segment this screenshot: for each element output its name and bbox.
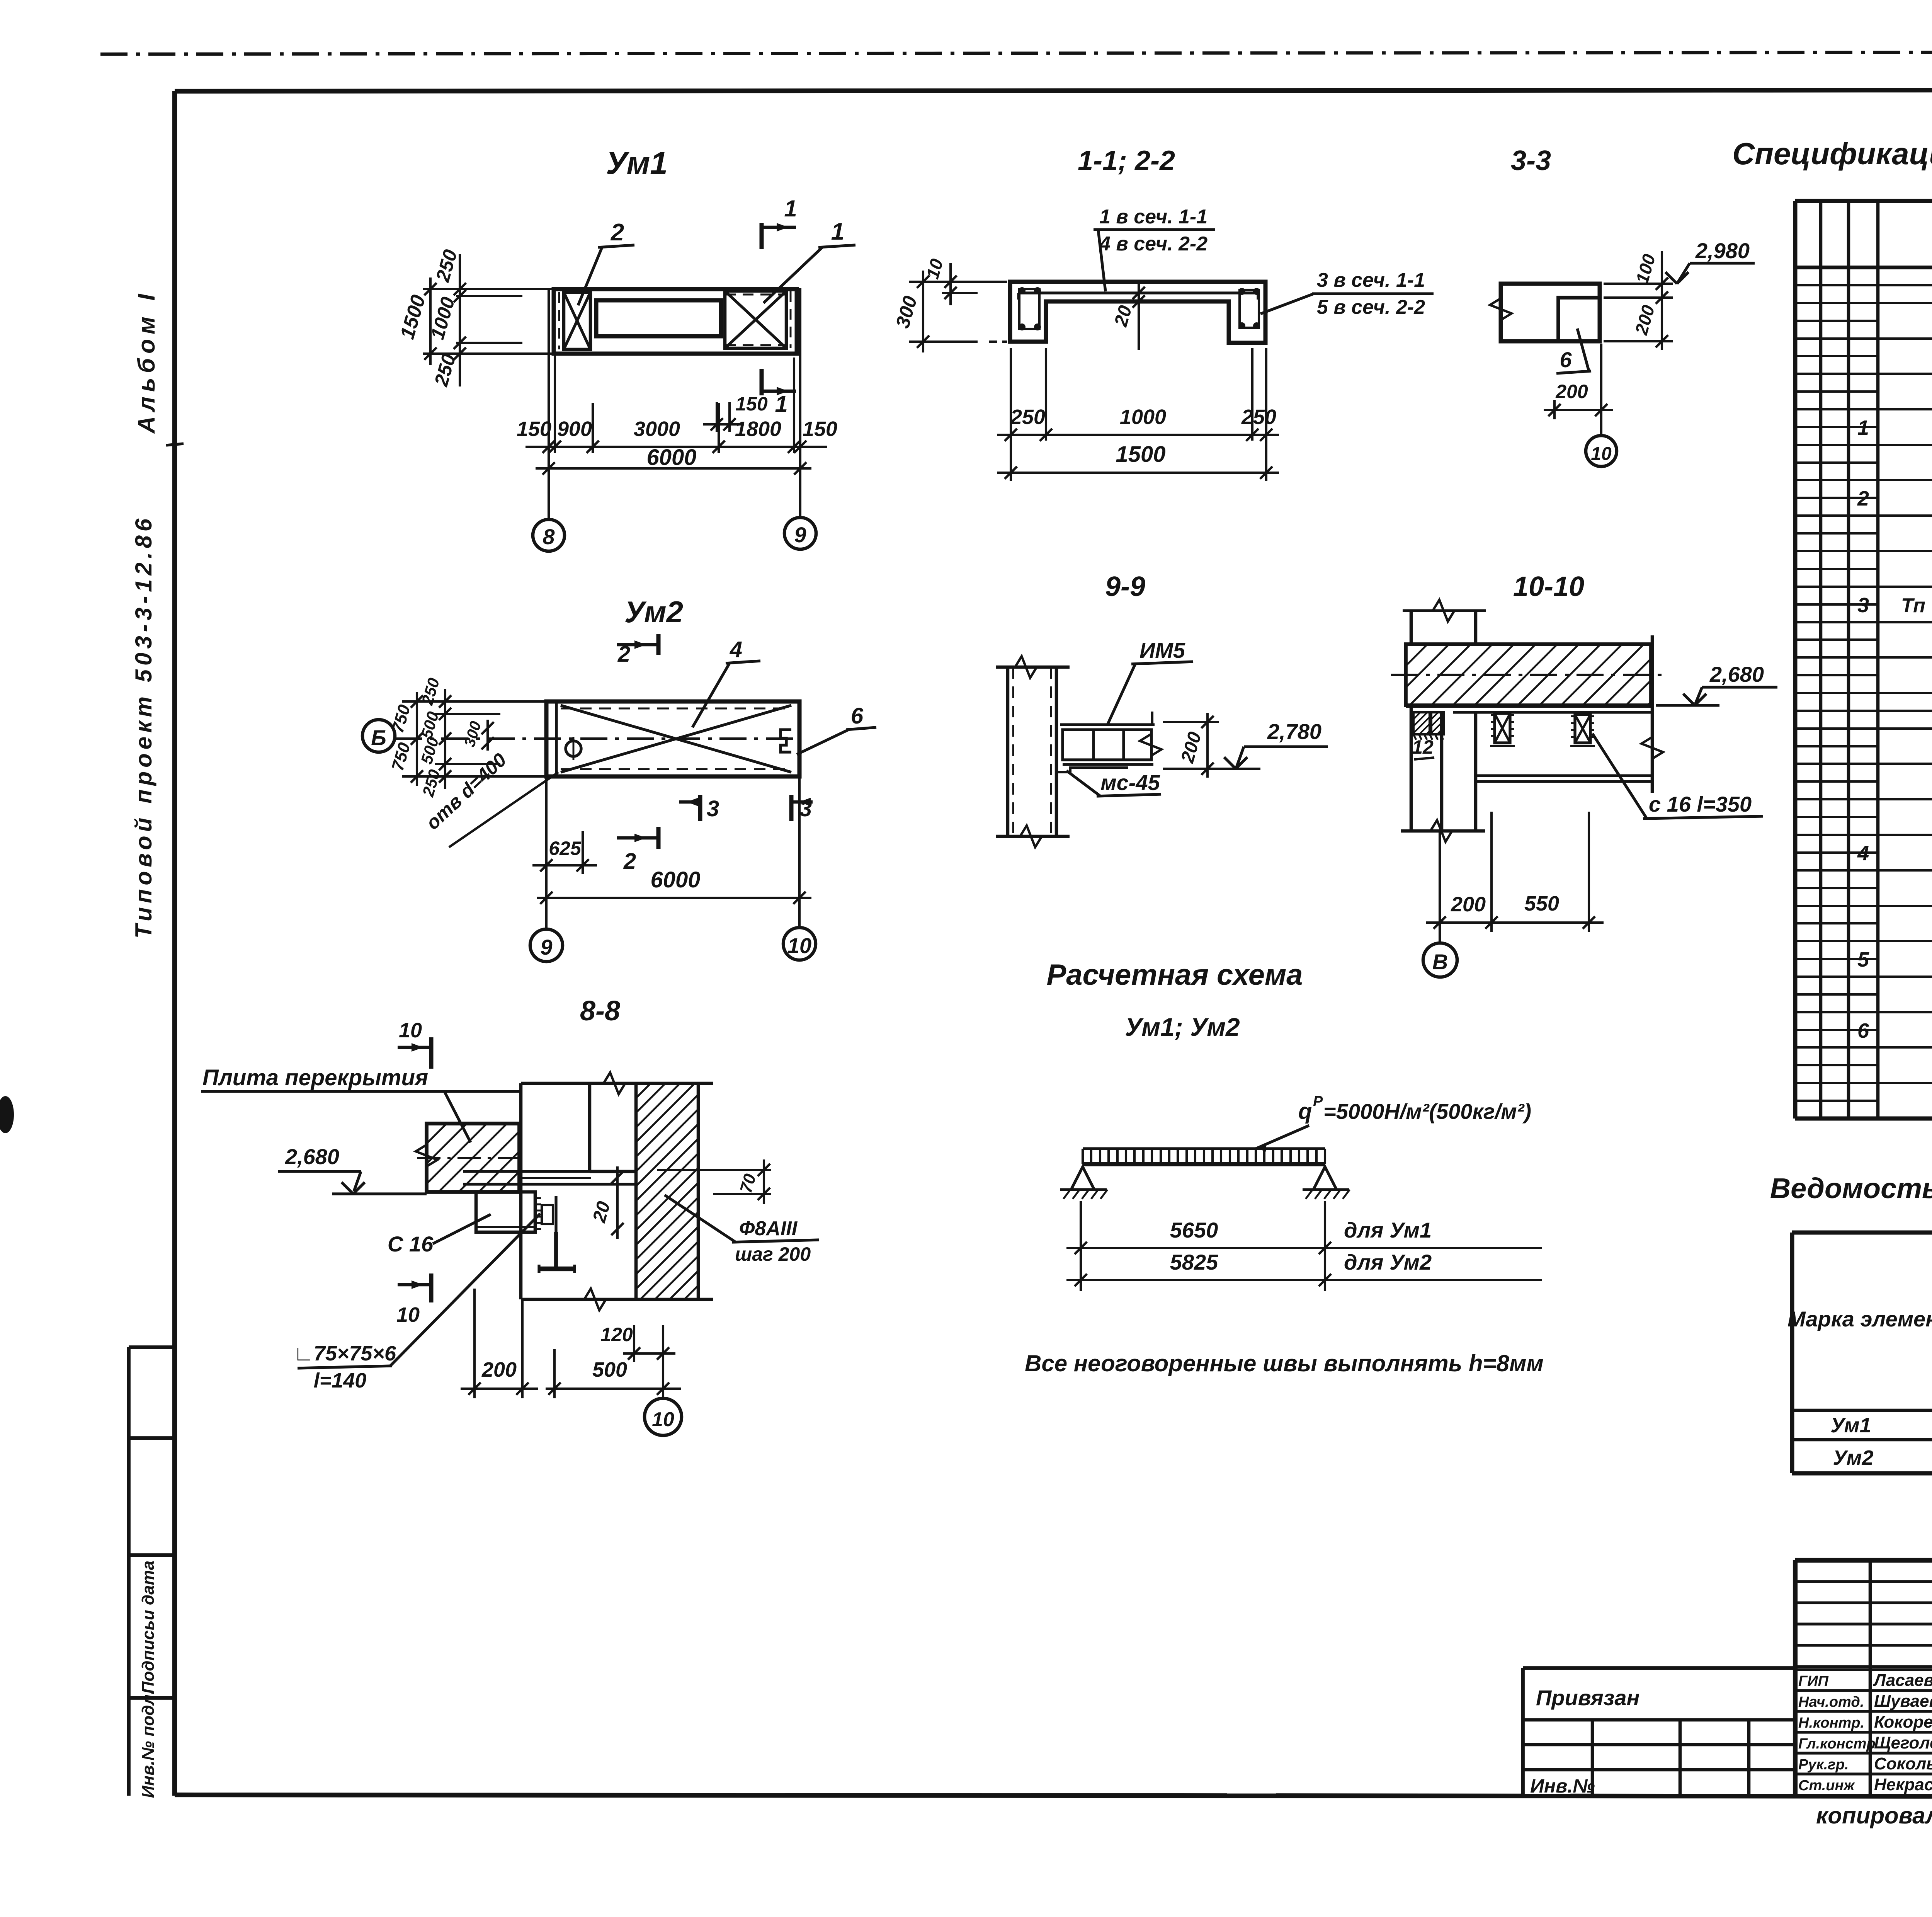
svg-text:q: q bbox=[1298, 1099, 1312, 1124]
svg-text:1: 1 bbox=[784, 196, 797, 221]
svg-text:10: 10 bbox=[399, 1019, 422, 1042]
dimension 20 mesh offset bbox=[1138, 283, 1140, 350]
svg-text:Подписьи дата: Подписьи дата bbox=[139, 1561, 158, 1694]
wall edge right 10-10 bbox=[1651, 635, 1654, 793]
extension lines left of Um1 bbox=[423, 288, 556, 290]
section mark 2 top bbox=[617, 643, 658, 647]
spec table half rows in narrow columns bbox=[1795, 284, 1878, 286]
svg-text:6: 6 bbox=[851, 703, 864, 729]
dimension 5825 dlya Um2 bbox=[1066, 1279, 1542, 1281]
svg-text:Ум2: Ум2 bbox=[624, 595, 683, 629]
column hidden dash lines bbox=[1012, 667, 1014, 836]
dimension 10 vertical bbox=[949, 263, 952, 305]
dimension 6000 Um1 bbox=[536, 467, 811, 470]
svg-text:Ласаев: Ласаев bbox=[1873, 1671, 1932, 1690]
svg-text:С 16: С 16 bbox=[388, 1232, 434, 1256]
svg-text:=5000Н/м²(500кг/м²): =5000Н/м²(500кг/м²) bbox=[1323, 1099, 1531, 1124]
svg-text:1: 1 bbox=[831, 218, 844, 245]
dimension 5650 dlya Um1 bbox=[1066, 1247, 1542, 1249]
drawing frame bbox=[175, 90, 1932, 91]
column face 8-8 bbox=[519, 1083, 523, 1299]
section marks 3-3 bbox=[698, 795, 702, 821]
slab soffit lines bbox=[1406, 705, 1651, 708]
svg-text:Ум1: Ум1 bbox=[1830, 1414, 1871, 1437]
right end embed notch bbox=[781, 730, 791, 752]
left stirrup cage bbox=[1019, 289, 1039, 329]
plan Um2 outline bbox=[546, 701, 799, 776]
svg-text:12: 12 bbox=[1412, 736, 1434, 758]
extension lines left of Um2 bbox=[402, 700, 546, 703]
svg-text:200: 200 bbox=[1555, 381, 1588, 402]
section mark 10 top bbox=[398, 1046, 431, 1049]
svg-text:9-9: 9-9 bbox=[1105, 571, 1145, 602]
svg-text:2,780: 2,780 bbox=[1267, 719, 1321, 744]
svg-text:6: 6 bbox=[1857, 1019, 1869, 1042]
plan Um1 hidden dash lines bbox=[558, 292, 560, 349]
svg-text:2: 2 bbox=[623, 849, 636, 874]
axis line 9 bbox=[799, 288, 801, 518]
plan Um1 left mesh box with cross bbox=[564, 292, 590, 349]
axis line and circle 10 bbox=[1600, 344, 1602, 436]
svg-text:150: 150 bbox=[517, 417, 551, 441]
svg-text:9: 9 bbox=[540, 935, 552, 959]
dimension 6000 Um2 bbox=[798, 776, 801, 928]
embedded plate 12 with hatch bbox=[1413, 712, 1430, 734]
svg-text:Ум1; Ум2: Ум1; Ум2 bbox=[1125, 1013, 1240, 1041]
extension lines below Um1 bbox=[554, 356, 556, 453]
svg-text:1: 1 bbox=[1857, 416, 1869, 439]
svg-text:8-8: 8-8 bbox=[580, 996, 620, 1027]
right stirrup cage bbox=[1240, 290, 1259, 328]
svg-text:3 в сеч. 1-1: 3 в сеч. 1-1 bbox=[1317, 269, 1425, 291]
svg-text:копировал: копировал bbox=[1816, 1803, 1932, 1828]
svg-text:шаг 200: шаг 200 bbox=[735, 1243, 811, 1265]
svg-text:9: 9 bbox=[794, 523, 806, 547]
svg-text:Шуваев: Шуваев bbox=[1874, 1692, 1932, 1711]
left support pinned bbox=[1071, 1167, 1094, 1190]
svg-text:2: 2 bbox=[611, 219, 624, 246]
svg-text:1500: 1500 bbox=[1116, 442, 1165, 467]
axis circle 8 bbox=[533, 519, 565, 551]
svg-text:для Ум1: для Ум1 bbox=[1344, 1218, 1432, 1242]
column below slab bbox=[1410, 705, 1413, 831]
svg-text:1-1; 2-2: 1-1; 2-2 bbox=[1078, 145, 1175, 176]
break mark on left edge bbox=[1490, 298, 1512, 320]
support plate lines 8-8 bbox=[463, 1170, 636, 1173]
svg-text:5: 5 bbox=[1857, 948, 1869, 971]
svg-text:10: 10 bbox=[652, 1408, 674, 1431]
svg-text:625: 625 bbox=[549, 838, 582, 859]
axis circle 9 bbox=[784, 518, 816, 549]
svg-text:5 в сеч. 2-2: 5 в сеч. 2-2 bbox=[1317, 296, 1425, 318]
beam IM5 body bbox=[1060, 723, 1155, 726]
plan Um1 right mesh box with cross bbox=[725, 291, 786, 348]
svg-text:Инв.№ подл.: Инв.№ подл. bbox=[139, 1690, 158, 1798]
anchor stirrup right bbox=[1575, 715, 1590, 743]
svg-text:Альбом I: Альбом I bbox=[133, 289, 160, 434]
dimension 200 500 below 8-8 bbox=[461, 1388, 538, 1390]
svg-text:P: P bbox=[1313, 1093, 1323, 1110]
margin stamp boxes bbox=[127, 1347, 131, 1796]
extension lines left of section bbox=[909, 281, 1007, 283]
small dimension 150 at opening bbox=[716, 402, 718, 432]
section 3-3 inner beam bbox=[1558, 298, 1600, 341]
title block left columns bbox=[1869, 1560, 1872, 1796]
svg-text:550: 550 bbox=[1524, 892, 1559, 915]
svg-text:250: 250 bbox=[1010, 405, 1045, 429]
svg-text:Типовой проект 503-3-12.86: Типовой проект 503-3-12.86 bbox=[131, 515, 156, 938]
welded rebar zone bbox=[554, 1196, 557, 1232]
axis circle V bbox=[1423, 943, 1457, 977]
leader 2 to left mesh bbox=[598, 245, 634, 247]
svg-text:500: 500 bbox=[592, 1358, 627, 1381]
svg-text:3: 3 bbox=[707, 796, 719, 821]
shelf angle 8-8 bbox=[476, 1192, 535, 1232]
svg-text:10: 10 bbox=[1591, 444, 1612, 464]
leader 1 to right mesh bbox=[818, 245, 855, 247]
extension lines below 10-10 bbox=[1490, 812, 1493, 932]
column outline 9-9 bbox=[1006, 667, 1010, 836]
spec table blank row subdivision lines bbox=[1795, 284, 1932, 286]
title block thin rows bbox=[1795, 1580, 1932, 1583]
svg-text:6: 6 bbox=[1560, 347, 1572, 372]
svg-text:ГИП: ГИП bbox=[1798, 1673, 1829, 1689]
extension lines below section bbox=[1010, 348, 1012, 481]
axis dash-dot through Um2 bbox=[395, 737, 799, 740]
svg-text:2: 2 bbox=[617, 642, 630, 667]
dimension 625 bbox=[545, 776, 548, 929]
svg-text:В: В bbox=[1432, 950, 1448, 974]
vedomost outer frame bbox=[1792, 1231, 1932, 1235]
break marks on column bbox=[1015, 656, 1037, 678]
svg-text:8: 8 bbox=[543, 524, 555, 549]
axis circle 10 Um2 bbox=[783, 928, 816, 960]
svg-text:3000: 3000 bbox=[634, 417, 680, 441]
svg-text:Кокорев: Кокорев bbox=[1874, 1713, 1932, 1731]
svg-text:4: 4 bbox=[730, 637, 742, 662]
mc-45 support step bbox=[1056, 768, 1128, 772]
dimension 200 550 bbox=[1426, 921, 1604, 924]
spec table outer and columns bbox=[1793, 201, 1798, 1119]
svg-text:200: 200 bbox=[1451, 893, 1486, 916]
svg-text:3: 3 bbox=[1857, 594, 1869, 617]
spec table row lines bbox=[1795, 302, 1932, 304]
plan Um2 left partition bbox=[555, 701, 558, 776]
axis line 8 bbox=[548, 288, 550, 519]
svg-text:ИМ5: ИМ5 bbox=[1139, 638, 1185, 662]
dimension 120 bbox=[633, 1325, 635, 1362]
svg-text:Расчетная схема: Расчетная схема bbox=[1047, 958, 1303, 991]
title block name rows bbox=[1795, 1668, 1932, 1671]
sheet top dash-dot trim line bbox=[100, 52, 1932, 54]
svg-text:с 16 l=350: с 16 l=350 bbox=[1649, 792, 1752, 816]
svg-text:мс-45: мс-45 bbox=[1100, 770, 1160, 795]
mesh line in slab bbox=[1019, 291, 1258, 294]
slab 10-10 hatched bbox=[1406, 644, 1651, 705]
svg-text:2,680: 2,680 bbox=[1709, 662, 1764, 686]
svg-text:Нач.отд.: Нач.отд. bbox=[1798, 1694, 1864, 1710]
scan blob bbox=[0, 1096, 14, 1133]
svg-text:∟75×75×6: ∟75×75×6 bbox=[293, 1342, 396, 1365]
dimension 750 750 vertical bbox=[416, 692, 418, 786]
dimension 200 right of beam bbox=[1163, 721, 1219, 723]
steel I-beam symbol bbox=[554, 1232, 558, 1269]
axis circle 9 Um2 bbox=[530, 929, 563, 962]
plan Um1 outer slab outline bbox=[554, 289, 797, 354]
beam bottom lines 10-10 bbox=[1476, 774, 1652, 777]
dimension 1500 section bbox=[997, 472, 1279, 474]
svg-text:3-3: 3-3 bbox=[1511, 145, 1551, 176]
svg-text:4: 4 bbox=[1857, 842, 1869, 865]
dimension 100 200 vertical bbox=[1661, 251, 1663, 350]
svg-text:Ум2: Ум2 bbox=[1833, 1446, 1873, 1469]
svg-text:Б: Б bbox=[371, 725, 386, 750]
dimension 200 below 3-3 bbox=[1553, 400, 1556, 419]
svg-text:2,680: 2,680 bbox=[285, 1144, 339, 1169]
svg-text:10: 10 bbox=[396, 1303, 420, 1326]
svg-text:Некрасова: Некрасова bbox=[1874, 1775, 1932, 1794]
svg-text:1000: 1000 bbox=[1120, 405, 1166, 429]
section 3-3 body bbox=[1501, 284, 1600, 341]
svg-text:Рук.гр.: Рук.гр. bbox=[1798, 1757, 1849, 1773]
svg-text:250: 250 bbox=[1241, 405, 1276, 429]
svg-text:6000: 6000 bbox=[650, 867, 700, 892]
dimension 300 vertical bbox=[922, 271, 924, 352]
floor slab hatched 8-8 bbox=[427, 1124, 519, 1192]
svg-text:Ведомость расхода стали на эл: Ведомость расхода стали на элемент кг bbox=[1770, 1172, 1932, 1204]
svg-text:Н.контр.: Н.контр. bbox=[1798, 1715, 1864, 1731]
beam line bbox=[1083, 1162, 1325, 1166]
svg-text:150: 150 bbox=[803, 417, 837, 441]
dimension 250 1000 250 vertical bbox=[459, 254, 461, 386]
svg-text:Ф8АIII: Ф8АIII bbox=[739, 1217, 798, 1240]
section mark 2 bottom bbox=[617, 836, 658, 840]
wall masonry 8-8 bbox=[634, 1083, 638, 1299]
svg-text:10: 10 bbox=[787, 933, 811, 958]
distributed load strip bbox=[1083, 1147, 1325, 1150]
svg-text:1: 1 bbox=[775, 391, 787, 417]
dimension 250 500 500 250 vertical bbox=[444, 689, 446, 789]
plan Um1 opening bbox=[596, 300, 721, 336]
svg-text:900: 900 bbox=[557, 417, 592, 441]
svg-text:150: 150 bbox=[735, 393, 768, 415]
spec table header row line bbox=[1795, 266, 1932, 269]
slab axis dash-dot bbox=[1391, 674, 1662, 676]
dimension 20 8-8 bbox=[616, 1166, 619, 1239]
svg-text:6000: 6000 bbox=[646, 445, 696, 470]
svg-text:Щеголев: Щеголев bbox=[1874, 1733, 1932, 1752]
svg-text:10-10: 10-10 bbox=[1513, 571, 1584, 602]
channel section outline bbox=[1010, 282, 1265, 343]
section mark 10 bottom bbox=[398, 1283, 431, 1287]
svg-text:200: 200 bbox=[481, 1358, 517, 1381]
anchor stirrup left bbox=[1495, 713, 1510, 743]
dimension 70 bbox=[657, 1169, 771, 1171]
svg-text:Инв.№: Инв.№ bbox=[1530, 1775, 1595, 1797]
svg-text:1 в сеч. 1-1: 1 в сеч. 1-1 bbox=[1099, 206, 1207, 228]
wall stub above slab bbox=[1410, 609, 1413, 644]
dimension 1500 vertical bbox=[429, 278, 432, 365]
section mark 1-1 bottom bbox=[760, 369, 764, 395]
svg-text:Гл.констр: Гл.констр bbox=[1798, 1736, 1876, 1752]
svg-text:5650: 5650 bbox=[1170, 1218, 1218, 1242]
svg-text:2: 2 bbox=[1857, 487, 1869, 510]
margin tick bbox=[166, 444, 184, 445]
privyazan table bbox=[1523, 1666, 1795, 1670]
svg-text:3: 3 bbox=[799, 796, 812, 821]
beam break mark bbox=[1140, 734, 1162, 756]
svg-text:Сокольцов: Сокольцов bbox=[1874, 1754, 1932, 1773]
svg-text:Ум1: Ум1 bbox=[606, 146, 668, 181]
svg-text:для Ум2: для Ум2 bbox=[1344, 1250, 1432, 1274]
dimension 250 1000 250 bbox=[997, 434, 1279, 436]
svg-text:5825: 5825 bbox=[1170, 1250, 1218, 1274]
axis circle B bbox=[362, 720, 395, 752]
svg-text:120: 120 bbox=[600, 1324, 633, 1345]
svg-text:Плита перекрытия: Плита перекрытия bbox=[202, 1065, 428, 1090]
hole otv d400 bbox=[566, 741, 581, 756]
section mark 1-1 top bbox=[760, 223, 764, 249]
svg-text:Тп: Тп bbox=[1901, 594, 1925, 617]
svg-text:2,980: 2,980 bbox=[1695, 238, 1750, 263]
plan Um2 dashed edges bbox=[561, 708, 791, 710]
svg-text:Все неоговоренные швы выпол: Все неоговоренные швы выполнять h=8мм bbox=[1025, 1350, 1544, 1376]
extension lines right of 3-3 bbox=[1604, 283, 1673, 285]
dimension 300 small bbox=[486, 720, 489, 751]
svg-text:Привязан: Привязан bbox=[1536, 1685, 1639, 1710]
svg-text:1800: 1800 bbox=[735, 417, 781, 441]
axis circle 10 8-8 bbox=[662, 1362, 664, 1398]
plan Um2 big cross bbox=[561, 705, 791, 772]
title block outer bbox=[1795, 1558, 1932, 1563]
svg-text:Марка элемента: Марка элемента bbox=[1787, 1307, 1932, 1331]
right support bbox=[1313, 1167, 1337, 1190]
dimension chain 150 900 3000 1800 150 bbox=[526, 446, 827, 448]
svg-text:4 в сеч. 2-2: 4 в сеч. 2-2 bbox=[1099, 233, 1207, 255]
svg-text:l=140: l=140 bbox=[314, 1369, 367, 1392]
svg-text:Спецификация элементов монолит: Спецификация элементов монолитных участк… bbox=[1732, 136, 1932, 171]
extension lines schema bbox=[1080, 1201, 1082, 1291]
extension lines below 8-8 bbox=[473, 1289, 476, 1398]
svg-text:Ст.инж: Ст.инж bbox=[1798, 1777, 1855, 1794]
